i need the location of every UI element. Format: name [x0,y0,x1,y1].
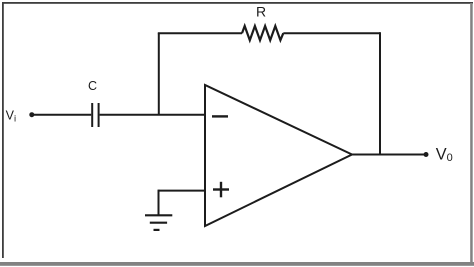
svg-text:C: C [88,79,97,93]
svg-text:R: R [256,3,266,19]
